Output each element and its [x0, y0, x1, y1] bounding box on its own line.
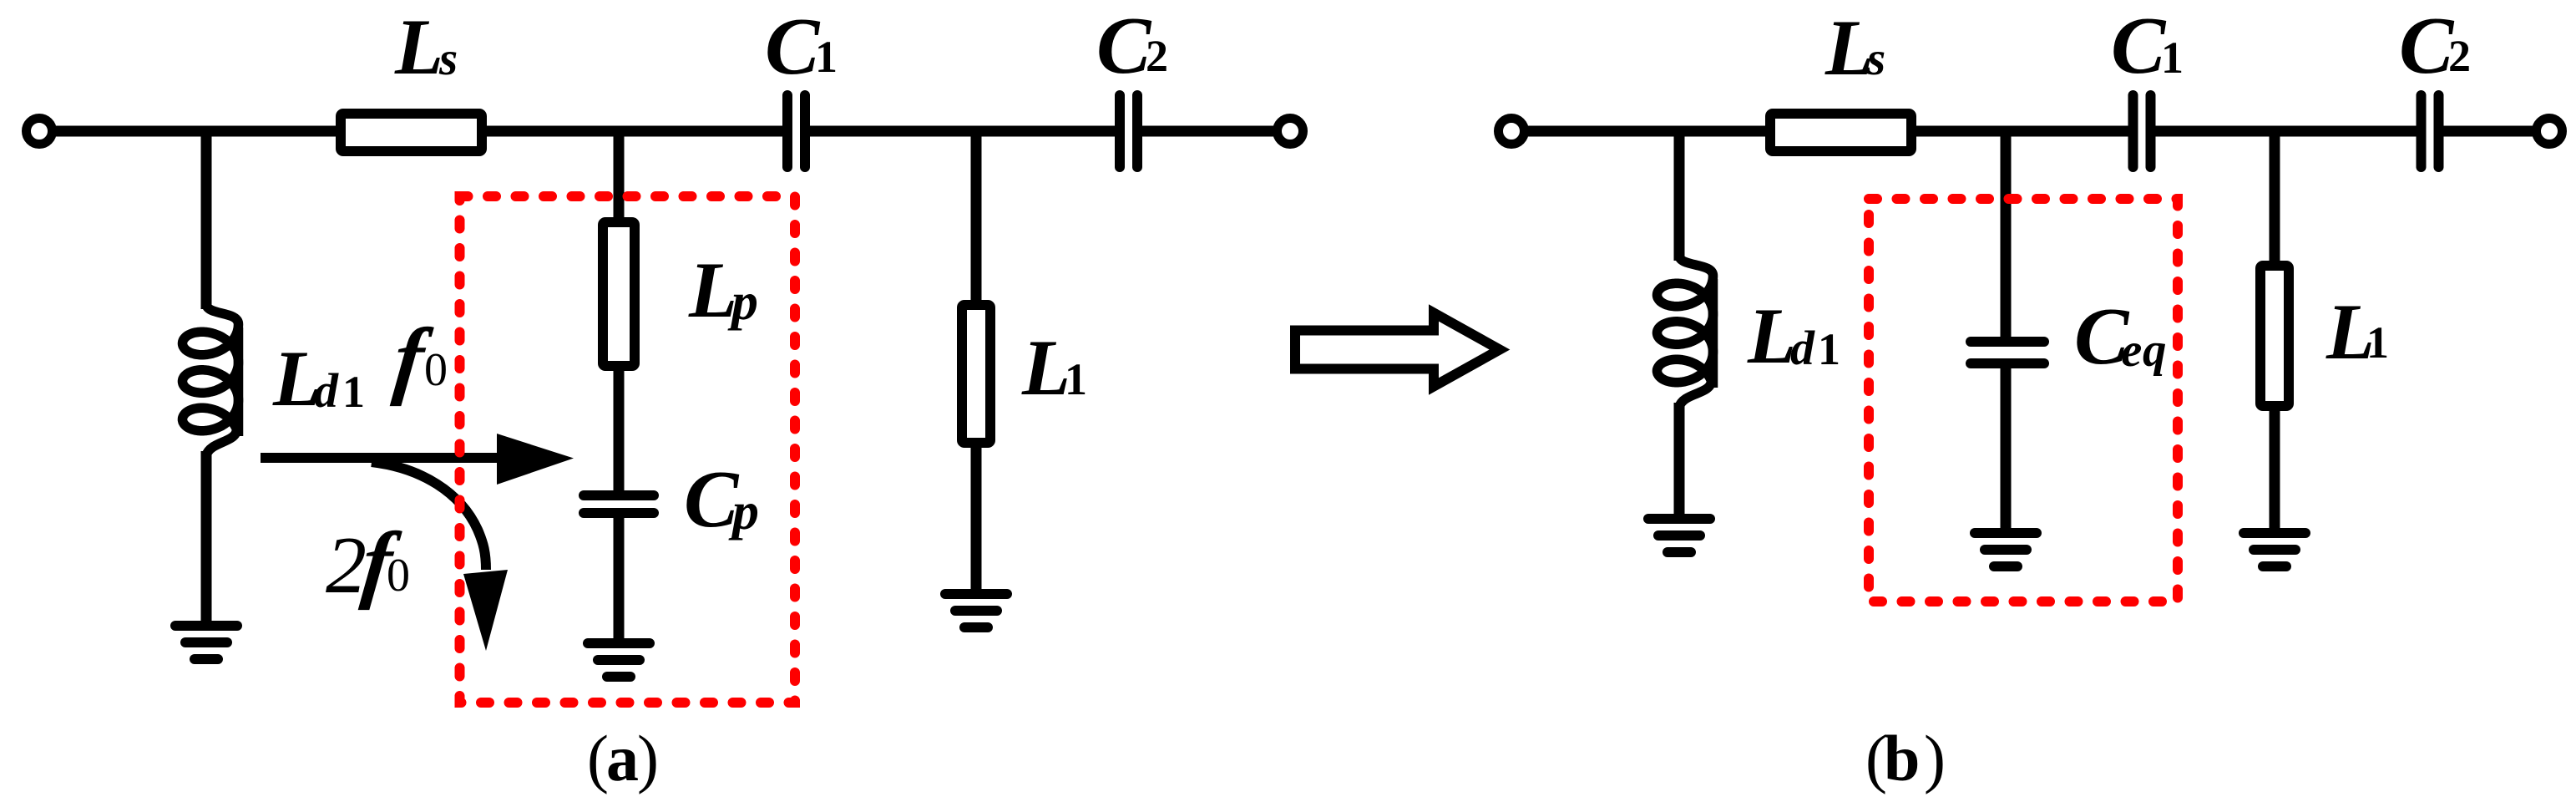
svg-text:a: a [606, 722, 639, 794]
svg-text:C: C [2399, 1, 2455, 91]
svg-text:0: 0 [424, 344, 448, 396]
svg-text:e: e [2121, 324, 2142, 377]
svg-text:1: 1 [815, 32, 838, 82]
svg-text:1: 1 [1818, 324, 1840, 374]
svg-text:d: d [314, 363, 339, 418]
svg-text:2: 2 [1146, 31, 1168, 81]
svg-text:L: L [688, 246, 737, 334]
svg-text:s: s [1866, 33, 1885, 85]
svg-text:2: 2 [2448, 31, 2471, 81]
svg-text:p: p [727, 272, 758, 331]
svg-text:): ) [637, 722, 659, 794]
svg-text:1: 1 [342, 367, 365, 417]
svg-text:q: q [2143, 324, 2167, 377]
svg-text:0: 0 [387, 550, 410, 601]
svg-text:d: d [1790, 321, 1815, 375]
svg-text:1: 1 [2366, 317, 2389, 368]
svg-text:): ) [1924, 722, 1946, 794]
svg-text:L: L [1747, 292, 1796, 380]
svg-text:C: C [765, 2, 821, 92]
svg-text:s: s [438, 33, 458, 85]
svg-text:1: 1 [1065, 354, 1087, 404]
svg-text:C: C [2111, 1, 2167, 91]
svg-text:L: L [394, 3, 443, 91]
svg-text:L: L [1021, 323, 1070, 412]
svg-text:1: 1 [2161, 33, 2184, 83]
svg-text:b: b [1884, 722, 1920, 794]
svg-text:p: p [728, 481, 759, 541]
svg-text:C: C [684, 454, 740, 545]
svg-text:C: C [1096, 1, 1152, 91]
